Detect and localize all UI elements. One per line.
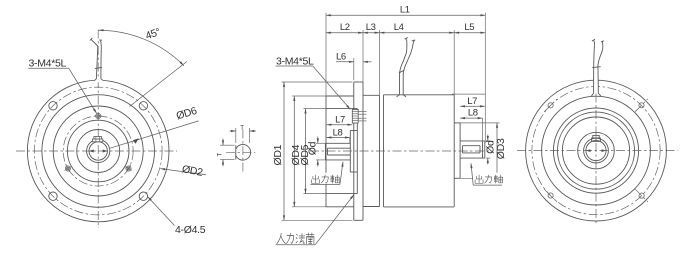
svg-text:L8: L8	[333, 128, 343, 139]
shaft keyway slot	[328, 147, 351, 149]
section symbol vertical centerline	[242, 130, 244, 173]
M4 hole lower-left	[62, 163, 73, 174]
svg-text:4-Ø4.5: 4-Ø4.5	[175, 224, 206, 236]
dim ØD1	[283, 82, 285, 220]
dim L6	[353, 58, 355, 80]
section cable tie	[399, 70, 404, 73]
dim L3	[363, 32, 380, 34]
vertical centerline	[97, 30, 99, 229]
svg-text:L8: L8	[468, 108, 478, 119]
label 出力軸 (right, output shaft)	[473, 173, 505, 184]
dim Ød (right)	[487, 135, 489, 141]
svg-text:L7: L7	[467, 96, 477, 107]
label 入力法蘭 (input flange)	[277, 233, 314, 244]
hub circle ØD2	[77, 130, 120, 173]
extension line x=485.3	[484, 13, 486, 143]
right view horizontal centerline	[517, 150, 678, 152]
svg-text:T: T	[218, 153, 224, 157]
dim L7 (mid)	[327, 124, 353, 126]
hole top-right	[635, 99, 648, 112]
dim ØD4	[293, 96, 295, 207]
extension line x=326	[325, 13, 327, 96]
svg-text:3-M4*5L: 3-M4*5L	[29, 58, 67, 70]
width dimension (T)	[235, 128, 237, 143]
label 4-Ø4.5	[148, 197, 175, 226]
right body	[383, 95, 385, 207]
circle r54.5	[542, 96, 651, 205]
rotor disc	[379, 95, 381, 206]
bore dimension arrowheads on centerline	[89, 150, 94, 153]
svg-text:ØD3: ØD3	[495, 138, 507, 159]
svg-text:L7: L7	[335, 114, 345, 125]
hole top-left	[544, 99, 557, 112]
svg-text:L6: L6	[336, 51, 346, 62]
right cable tie	[592, 66, 601, 69]
dim L8 (mid)	[327, 137, 350, 139]
svg-text:ØD6: ØD6	[175, 105, 199, 123]
label 出力軸 (left, output shaft)	[310, 173, 342, 184]
height dimension (t)	[220, 144, 235, 146]
dim ØD5	[305, 109, 307, 194]
extension line x=363	[362, 30, 364, 82]
circle r42.6	[553, 108, 638, 193]
shaft chamfer line	[482, 141, 484, 158]
svg-text:3-M4*5L: 3-M4*5L	[276, 55, 314, 67]
extension line x=454.2	[453, 30, 455, 95]
keyway notch right view	[592, 138, 601, 141]
bore back wall	[356, 109, 358, 194]
45 deg radial line	[130, 62, 187, 107]
dim L2	[326, 32, 363, 34]
svg-text:L1: L1	[400, 4, 410, 15]
svg-text:L5: L5	[464, 22, 474, 33]
shaft outer circle	[87, 139, 110, 162]
bolt circle (4-holes, dash-dot)	[34, 87, 162, 215]
bolt circle dash-dot	[532, 87, 660, 215]
svg-text:45°: 45°	[144, 26, 162, 42]
M4 bolt circle (dash-dot)	[63, 116, 133, 186]
section centerline	[310, 150, 490, 152]
wire cable left view	[95, 79, 103, 82]
hole 4.5 bottom-left	[49, 192, 57, 200]
hub circle	[578, 132, 615, 169]
boss circle	[562, 117, 629, 184]
extension line x=379.5	[379, 30, 381, 95]
shaft circle with D-flat	[236, 144, 251, 160]
boss (right)	[459, 123, 461, 178]
right view vertical centerline	[595, 77, 597, 223]
dim L5	[454, 32, 485, 34]
bore walls ØD5	[326, 108, 357, 110]
right shaft keyway slot	[463, 145, 481, 147]
screw M4 (hatched)	[352, 110, 366, 124]
output shaft (right)	[460, 140, 485, 142]
section symbol horizontal centerline	[226, 151, 255, 153]
input flange (armature plate)	[353, 82, 355, 220]
hole 4.5 top-left	[49, 102, 57, 110]
body circle	[42, 95, 155, 208]
stray extension line near boss	[452, 93, 485, 95]
right view cable	[594, 70, 598, 93]
hole 4.5 bottom-right	[139, 192, 147, 200]
label ØD6	[110, 121, 199, 148]
svg-text:L4: L4	[394, 22, 404, 33]
dim ØD3	[496, 123, 498, 178]
dim Ød (left shaft)	[317, 137, 319, 144]
M4 hole top	[94, 112, 102, 120]
dim L8 (right)	[460, 117, 482, 119]
cable tie tick	[95, 67, 102, 68]
shaft circle outer	[584, 138, 609, 163]
svg-text:ØD1: ØD1	[272, 144, 284, 165]
circle D	[53, 106, 143, 196]
hole bottom-right	[635, 189, 648, 202]
dim L1	[326, 14, 485, 16]
screw shank thread lines	[358, 111, 366, 121]
svg-text:Ød: Ød	[307, 141, 319, 155]
circle E	[67, 120, 129, 182]
shaft bore circle	[89, 142, 107, 160]
hub	[349, 131, 351, 173]
horizontal centerline	[16, 150, 177, 152]
left body outline	[325, 96, 327, 207]
outer flange circle	[27, 80, 169, 222]
wires (section view)	[397, 38, 416, 97]
hole 4.5 top-right	[139, 102, 147, 110]
45 deg dimension arc	[99, 30, 184, 65]
svg-text:L3: L3	[366, 22, 376, 33]
keyway notch	[93, 137, 103, 142]
hole bottom-left	[544, 189, 557, 202]
svg-text:L2: L2	[340, 22, 350, 33]
shaft circle inner	[586, 141, 606, 161]
circle r38.5	[558, 112, 635, 189]
output shaft (left)	[324, 143, 326, 160]
outer circle	[526, 80, 667, 221]
svg-text:ØD2: ØD2	[181, 163, 204, 179]
dim L4	[380, 32, 455, 34]
dim L7 (right)	[460, 105, 485, 107]
svg-text:T: T	[240, 126, 244, 132]
M4 hole lower-right	[123, 163, 134, 174]
label ØD2	[160, 169, 206, 175]
D-flat line	[235, 145, 237, 159]
